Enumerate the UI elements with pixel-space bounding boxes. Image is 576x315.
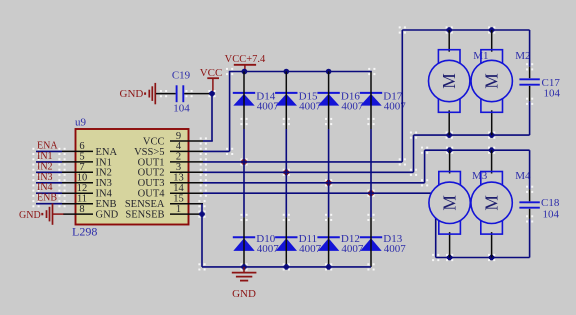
wire column 3 leads (325, 72, 332, 267)
diode D13 (360, 233, 407, 255)
svg-text:L298: L298 (72, 225, 97, 239)
svg-text:104: 104 (544, 87, 561, 99)
pin 7 (IN2) of U1 (62, 162, 112, 179)
svg-text:4007: 4007 (299, 243, 322, 255)
wire SENSEA/SENSEB to ground rail (198, 200, 205, 267)
diode D15 (275, 91, 322, 113)
junction M2 bottom (488, 132, 495, 139)
junction SENSE (198, 211, 205, 218)
svg-text:VSS>5: VSS>5 (134, 147, 164, 158)
pin 14 (OUT4) of U1 (138, 183, 203, 200)
ground GND (bottom) (232, 267, 257, 300)
svg-text:6: 6 (79, 141, 84, 152)
wire net IN3 (32, 179, 65, 186)
svg-text:14: 14 (173, 183, 184, 194)
pin 4 (VSS>5) of U1 (134, 141, 203, 158)
svg-text:ENA: ENA (96, 147, 118, 158)
junction OUT4-diode column (367, 190, 374, 197)
junction OUT2-diode column (283, 169, 290, 176)
wire OUT4 (200, 190, 440, 262)
svg-text:OUT4: OUT4 (138, 189, 166, 200)
junction M4 top (488, 147, 495, 154)
wire motor group 2 top rail (425, 149, 530, 151)
power VCC+7.4 (225, 54, 266, 75)
svg-text:8: 8 (79, 204, 84, 215)
svg-text:M: M (440, 195, 460, 211)
svg-text:15: 15 (173, 194, 184, 205)
svg-text:13: 13 (173, 173, 184, 184)
svg-text:10: 10 (77, 173, 88, 184)
svg-text:VCC+7.4: VCC+7.4 (225, 54, 266, 65)
junction M3 bottom (446, 254, 453, 261)
wire column 1 leads (240, 72, 247, 267)
wire pin 4 to +7.4 rail (200, 68, 234, 155)
svg-text:IN2: IN2 (37, 161, 53, 172)
svg-text:OUT2: OUT2 (138, 168, 165, 179)
wire net ENA (32, 148, 65, 155)
motor M2 (471, 30, 530, 135)
wire bottom ground rail (198, 263, 374, 270)
svg-text:OUT1: OUT1 (138, 157, 165, 168)
svg-text:1: 1 (176, 204, 181, 215)
svg-text:OUT3: OUT3 (138, 178, 165, 189)
svg-text:12: 12 (77, 183, 88, 194)
pin 13 (OUT3) of U1 (138, 173, 203, 190)
svg-text:4007: 4007 (257, 101, 280, 113)
svg-text:M4: M4 (515, 170, 531, 182)
svg-text:C19: C19 (172, 70, 191, 82)
net label IN1 (37, 151, 53, 162)
svg-text:9: 9 (176, 131, 181, 142)
pin 6 (ENA) of U1 (62, 141, 117, 158)
wire C18 branch (526, 150, 533, 257)
svg-text:M: M (439, 73, 459, 89)
diode D16 (317, 91, 364, 113)
junction M3 top (446, 147, 453, 154)
diode D17 (360, 91, 407, 113)
junction rail-D15 (284, 69, 290, 75)
pin 10 (IN3) of U1 (62, 173, 112, 190)
wire column 4 leads (367, 72, 374, 267)
svg-text:3: 3 (176, 162, 181, 173)
svg-text:11: 11 (77, 194, 87, 205)
net label IN3 (37, 172, 53, 183)
motor M3 (429, 150, 488, 257)
pin 12 (IN4) of U1 (62, 183, 113, 200)
capacitor C19 (172, 70, 191, 115)
wire VCC+7.4 top rail (229, 68, 376, 75)
diode D12 (317, 233, 364, 255)
junction OUT3-diode column (325, 179, 332, 186)
ground GND (top left) (120, 83, 156, 104)
junction OUT1-diode column (240, 158, 247, 165)
pin 5 (IN1) of U1 (62, 152, 112, 169)
pin 15 (SENSEA) of U1 (125, 194, 203, 211)
junction diode-ground rail (283, 263, 290, 270)
pin 3 (OUT2) of U1 (138, 162, 203, 179)
net label ENB (37, 193, 57, 204)
svg-text:M: M (482, 73, 502, 89)
diode D11 (275, 233, 322, 255)
svg-text:IN3: IN3 (96, 178, 112, 189)
svg-text:SENSEA: SENSEA (125, 199, 165, 210)
wire VCC node to pin 9 (200, 94, 213, 145)
wire motor group 1 top rail (402, 29, 529, 31)
svg-text:ENB: ENB (37, 193, 57, 204)
svg-text:u9: u9 (75, 117, 87, 129)
svg-text:GND: GND (19, 210, 41, 221)
capacitor C17 (519, 77, 560, 100)
junction rail-D16 (326, 69, 332, 75)
net label IN2 (37, 161, 53, 172)
svg-text:2: 2 (176, 152, 181, 163)
wire C19 to VCC node (184, 90, 212, 97)
wire OUT3 (200, 147, 429, 187)
wire GND to C19 (156, 90, 176, 97)
svg-text:IN2: IN2 (96, 168, 112, 179)
diode D10 (233, 233, 279, 255)
svg-text:IN4: IN4 (37, 182, 53, 193)
svg-text:IN4: IN4 (96, 189, 113, 200)
svg-text:GND: GND (120, 88, 144, 100)
junction M2 top (488, 26, 495, 33)
svg-text:4: 4 (176, 141, 182, 152)
svg-text:C18: C18 (541, 197, 560, 209)
svg-text:GND: GND (232, 288, 256, 300)
junction VCC node (208, 90, 215, 97)
capacitor C18 (519, 197, 559, 221)
wire net IN2 (32, 169, 65, 176)
motor M1 (429, 30, 489, 135)
junction M1 top (446, 26, 453, 33)
svg-text:M2: M2 (515, 50, 530, 62)
wire net IN1 (32, 158, 65, 165)
wire OUT2 (200, 132, 417, 176)
wire net IN4 (32, 190, 65, 197)
net label IN4 (37, 182, 53, 193)
svg-text:5: 5 (79, 152, 84, 163)
svg-text:4007: 4007 (341, 243, 364, 255)
svg-text:104: 104 (543, 208, 560, 220)
junction diode-ground rail (240, 263, 247, 270)
wire C17 branch (526, 30, 533, 135)
svg-text:GND: GND (96, 210, 119, 221)
svg-text:IN1: IN1 (96, 157, 112, 168)
wire OUT1 (200, 26, 406, 165)
junction M4 bottom (488, 254, 495, 261)
svg-text:4007: 4007 (299, 101, 322, 113)
motor M4 (471, 150, 531, 257)
pin 2 (OUT1) of U1 (138, 152, 203, 169)
net label ENA (37, 140, 58, 151)
pin 11 (ENB) of U1 (62, 194, 117, 211)
svg-text:4007: 4007 (384, 243, 407, 255)
wire motor group 2 bottom rail (436, 257, 530, 259)
svg-text:SENSEB: SENSEB (125, 210, 164, 221)
wire column 2 leads (283, 72, 290, 267)
svg-text:M: M (482, 195, 502, 211)
power VCC (200, 67, 223, 93)
pin 9 (VCC) of U1 (143, 131, 203, 148)
svg-text:IN1: IN1 (37, 151, 53, 162)
junction diode-ground rail (325, 263, 332, 270)
ground GND (left, pin 8) (19, 203, 64, 224)
wire motor group 1 bottom rail (414, 134, 530, 136)
wire net ENB (32, 200, 65, 207)
svg-text:ENB: ENB (96, 199, 117, 210)
svg-text:IN3: IN3 (37, 172, 53, 183)
diode D14 (233, 91, 279, 113)
svg-text:ENA: ENA (37, 140, 58, 151)
pin 8 (GND) of U1 (63, 204, 119, 221)
svg-text:4007: 4007 (257, 243, 280, 255)
svg-text:VCC: VCC (143, 136, 165, 147)
svg-text:104: 104 (173, 103, 190, 115)
pin 1 (SENSEB) of U1 (125, 204, 203, 221)
junction M1 bottom (446, 132, 453, 139)
svg-text:4007: 4007 (341, 101, 364, 113)
svg-text:7: 7 (79, 162, 84, 173)
op IC body U9 (L298) (72, 117, 189, 239)
